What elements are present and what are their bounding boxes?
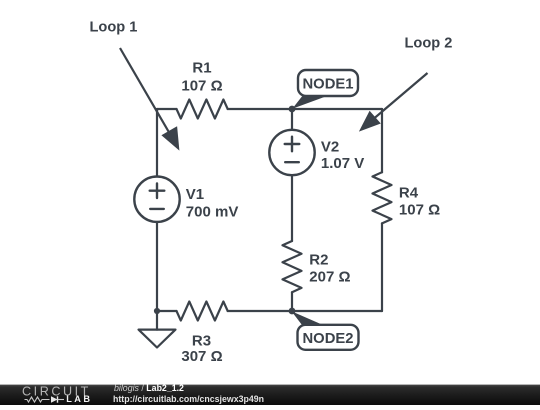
svg-text:307 Ω: 307 Ω: [181, 348, 222, 365]
resistor R3: [177, 302, 228, 321]
wire middle V2 to R2: [291, 175, 293, 241]
resistor R2: [283, 241, 302, 292]
svg-text:Loop 1: Loop 1: [90, 20, 138, 36]
junction dot ground/V1/R3: [154, 308, 160, 314]
wire NODE1 to top-right corner: [292, 108, 382, 110]
svg-text:V2: V2: [321, 139, 339, 156]
svg-text:R4: R4: [399, 185, 419, 202]
svg-text:1.07 V: 1.07 V: [321, 155, 364, 172]
resistor R1: [177, 100, 228, 119]
resistor R4: [373, 172, 392, 223]
footer CircuitLab logo: [22, 385, 93, 404]
svg-text:bilogis / Lab2_1.2: bilogis / Lab2_1.2: [114, 383, 184, 393]
node label NODE1: [292, 70, 358, 109]
svg-text:700 mV: 700 mV: [186, 203, 239, 220]
annotation Loop 2 arrow: [359, 73, 428, 132]
wire R2 to NODE2: [291, 292, 293, 311]
node NODE1 junction dot: [289, 106, 296, 113]
svg-text:LAB: LAB: [66, 394, 92, 404]
svg-text:R3: R3: [192, 333, 211, 350]
voltage source V2: [269, 130, 314, 175]
svg-text:http://circuitlab.com/cncsjewx: http://circuitlab.com/cncsjewx3p49n: [113, 394, 264, 404]
svg-text:V1: V1: [186, 186, 204, 203]
wire NODE2 to bottom-right corner: [292, 310, 382, 312]
svg-text:R1: R1: [192, 60, 211, 77]
svg-text:R2: R2: [309, 251, 328, 268]
wire R1 to NODE1: [228, 108, 292, 110]
wire middle V2 top (NODE1 to V2): [291, 109, 293, 130]
annotation Loop 1 arrow: [120, 48, 179, 151]
svg-text:NODE2: NODE2: [303, 331, 354, 347]
svg-text:NODE1: NODE1: [303, 77, 354, 93]
voltage source V1: [134, 177, 179, 222]
svg-text:107 Ω: 107 Ω: [181, 78, 222, 95]
wire left rail lower (V1 to bottom junction): [156, 222, 158, 311]
wire R3 to NODE2: [228, 310, 292, 312]
wire right rail upper (R4 to top corner): [381, 109, 383, 172]
wire left rail upper (corner to V1): [156, 109, 158, 177]
node NODE2 junction dot: [289, 308, 296, 315]
wire right rail lower (corner to R4): [381, 223, 383, 311]
wire bottom left (junction to R3): [157, 310, 177, 312]
svg-text:207 Ω: 207 Ω: [309, 269, 350, 286]
svg-text:Loop 2: Loop 2: [405, 36, 453, 52]
wire top-left corner to R1: [157, 109, 177, 111]
node label NODE2: [292, 311, 359, 350]
svg-text:107 Ω: 107 Ω: [399, 202, 440, 219]
ground: [156, 311, 158, 330]
